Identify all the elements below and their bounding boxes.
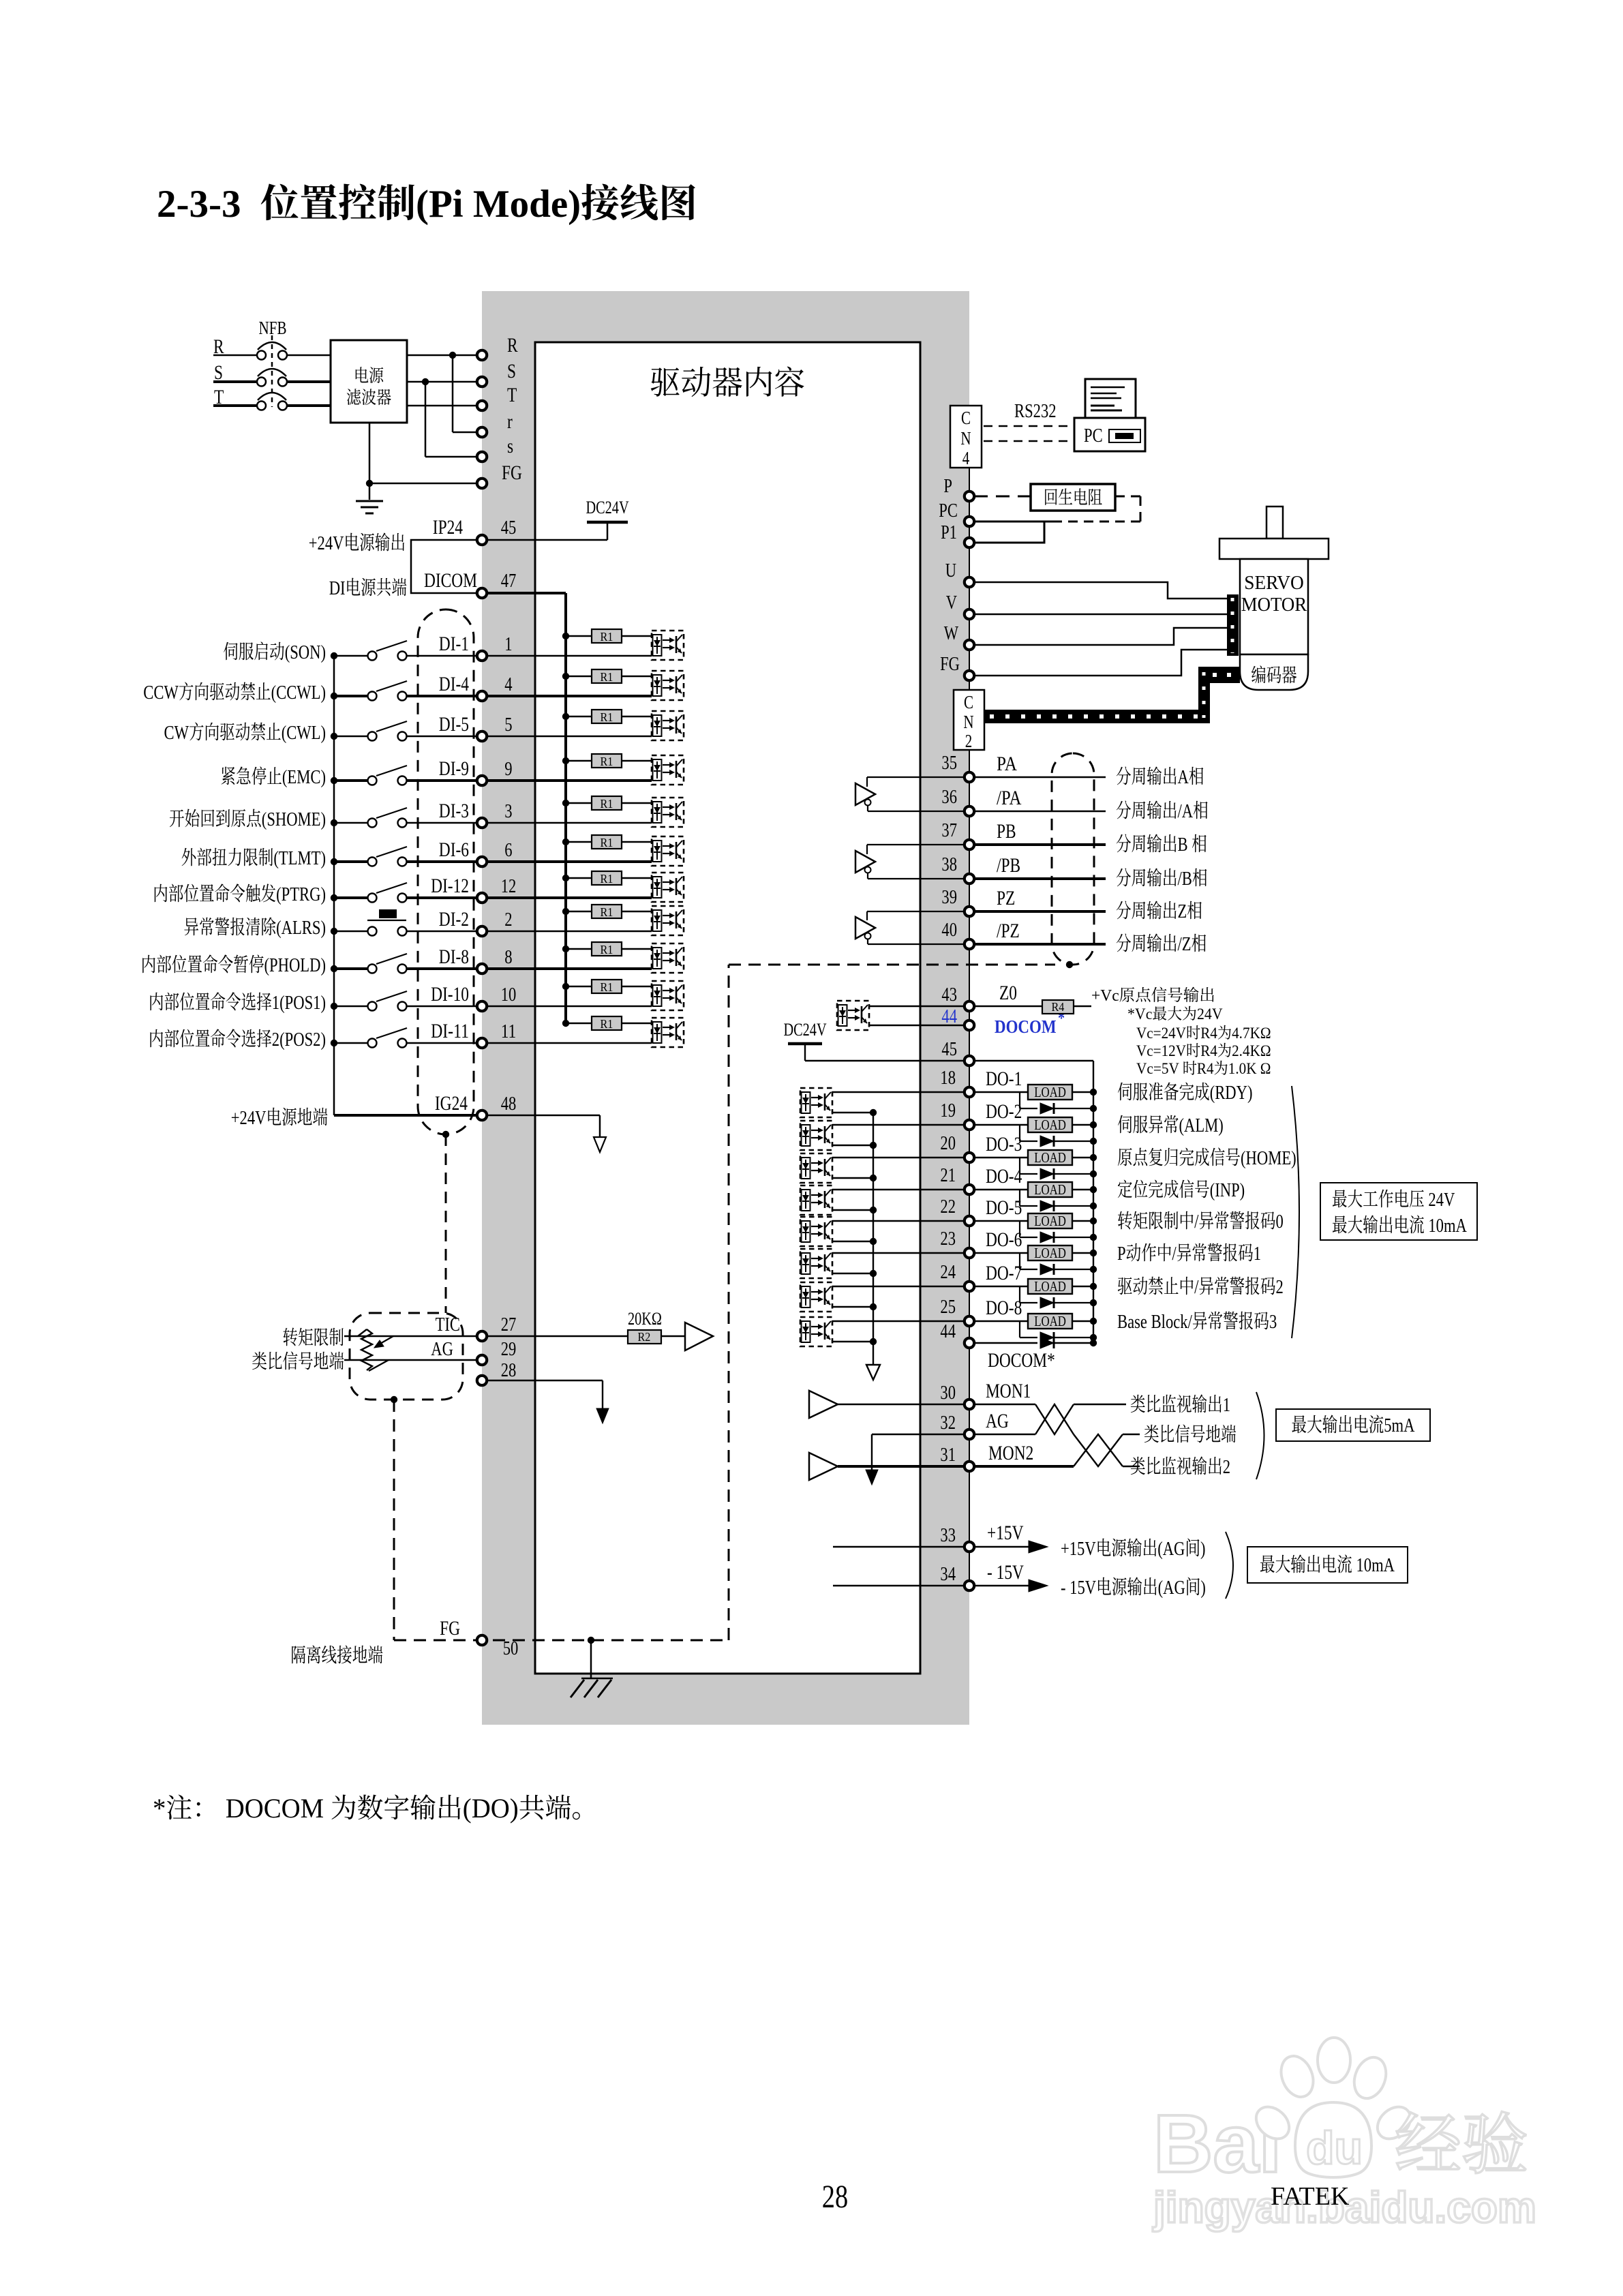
svg-text:DO-3: DO-3 — [986, 1133, 1022, 1155]
load resistor (DO-2) — [974, 1124, 1028, 1126]
watermark Baidu logo — [1153, 2038, 1416, 2190]
svg-text:22: 22 — [940, 1196, 956, 1218]
svg-text:PB: PB — [997, 820, 1016, 843]
svg-text:N: N — [963, 712, 973, 732]
wire jumper P1 to PC — [974, 522, 1044, 543]
svg-text:0: 0 — [1276, 1211, 1284, 1233]
svg-text:DI-4: DI-4 — [439, 673, 469, 695]
svg-text:FATEK: FATEK — [1271, 2182, 1350, 2211]
flyback diode (DO-1) — [1019, 1092, 1020, 1108]
wire W to motor — [974, 628, 1228, 645]
wire T to NFB — [213, 404, 257, 407]
wire pin 11 to optocoupler — [487, 1042, 652, 1044]
load resistor (DO-6) — [974, 1252, 1028, 1254]
svg-text:45: 45 — [501, 517, 517, 539]
switch for DI-10 — [334, 1006, 367, 1008]
svg-text:Z: Z — [1178, 901, 1187, 922]
svg-text:33: 33 — [940, 1524, 956, 1546]
DI common bus (left) — [333, 656, 335, 1115]
label 隔离线接地端 — [292, 1646, 305, 1663]
pin r — [477, 427, 487, 437]
inverter bubble A- — [865, 800, 871, 806]
svg-text:DO-2: DO-2 — [986, 1100, 1022, 1123]
callout box max voltage/current — [1320, 1183, 1477, 1240]
svg-text:(ALM): (ALM) — [1179, 1115, 1224, 1136]
svg-text:10mA: 10mA — [1352, 1554, 1395, 1576]
switch for DI-2 — [334, 931, 367, 933]
svg-text:S: S — [507, 360, 516, 382]
svg-text:10: 10 — [501, 984, 517, 1006]
svg-text:DO-1: DO-1 — [986, 1068, 1022, 1090]
wire pin 10 to optocoupler — [487, 1006, 652, 1008]
pin 9 (DI-9) — [477, 776, 487, 785]
svg-text:C: C — [961, 408, 971, 428]
svg-text:s: s — [507, 435, 513, 457]
svg-text:27: 27 — [501, 1314, 517, 1335]
svg-text:R1: R1 — [601, 797, 613, 811]
svg-text:(CCWL): (CCWL) — [271, 682, 326, 704]
DO emitter common bus — [873, 1113, 874, 1365]
optocoupler (DO-7) — [800, 1282, 832, 1312]
optocoupler (DI-5) — [652, 711, 684, 740]
svg-text:/: / — [1172, 1243, 1177, 1265]
junction R1 branch DI-11 — [562, 1020, 569, 1027]
svg-text:LOAD: LOAD — [1034, 1278, 1066, 1295]
pin 12 (DI-12) — [477, 893, 487, 903]
junction R1 branch DI-5 — [562, 713, 569, 720]
svg-text:44: 44 — [941, 1006, 957, 1027]
svg-text:(RDY): (RDY) — [1210, 1082, 1253, 1104]
wire PZ output — [974, 910, 1106, 913]
wire V to motor — [974, 614, 1228, 616]
pin 22 (DO-5) — [965, 1216, 974, 1226]
load common bus (vertical) — [1093, 1061, 1094, 1343]
svg-text:10mA: 10mA — [1425, 1215, 1467, 1237]
resistor R1 (DI-8) — [566, 948, 592, 950]
svg-text:2: 2 — [1276, 1276, 1284, 1298]
dashed wire regen resistor loop to PC — [1115, 496, 1140, 498]
svg-text:DI-12: DI-12 — [431, 875, 469, 897]
wire pin 8 to optocoupler — [487, 967, 652, 970]
wire driver B- to pin — [868, 878, 965, 879]
svg-text:1: 1 — [504, 633, 512, 655]
svg-text:DI-3: DI-3 — [439, 800, 469, 822]
connector CN2 — [954, 690, 984, 750]
svg-text:du: du — [1306, 2122, 1363, 2174]
wire -15V output arrow — [974, 1585, 1029, 1586]
svg-text:+15V: +15V — [1061, 1538, 1096, 1560]
wire pin 4 to optocoupler — [487, 695, 652, 697]
switch for DI-12 — [334, 896, 367, 899]
buffer amp MON2 — [809, 1453, 838, 1480]
pin 20 (DO-3) — [965, 1153, 974, 1162]
svg-text:MOTOR: MOTOR — [1241, 594, 1307, 616]
svg-text:IP24: IP24 — [433, 516, 463, 539]
svg-text:SERVO: SERVO — [1244, 572, 1304, 594]
wire FG to motor — [974, 650, 1228, 676]
svg-text:): ) — [1200, 1577, 1206, 1599]
svg-text:Vc=24V: Vc=24V — [1136, 1025, 1186, 1042]
svg-text:DOCOM: DOCOM — [219, 1793, 331, 1824]
svg-text:/Z: /Z — [1178, 933, 1192, 955]
optocoupler (DO-1) — [800, 1088, 832, 1117]
wire pin 2 to optocoupler — [487, 931, 652, 933]
svg-text:30: 30 — [940, 1382, 956, 1404]
svg-text:R1: R1 — [601, 1017, 613, 1031]
pin 18 (DO-1) — [965, 1087, 974, 1097]
svg-text:DI-2: DI-2 — [439, 908, 469, 931]
PC monitor icon — [1085, 379, 1136, 418]
svg-text:25: 25 — [940, 1296, 956, 1318]
svg-text:+24V: +24V — [309, 532, 344, 554]
wire pin45 to load bus — [974, 1060, 1093, 1061]
label 外部扭力限制(TLMT) — [182, 848, 196, 866]
pin 43 (Z0) — [965, 1001, 974, 1011]
wire opto emitter to DO common — [832, 1341, 873, 1342]
svg-text:- 15V: - 15V — [1061, 1577, 1096, 1599]
wire filter to pin R — [407, 354, 477, 357]
servo motor encoder section 编码器 — [1240, 654, 1308, 690]
junction DI-3 on common bus — [331, 819, 337, 826]
svg-text:DO-4: DO-4 — [986, 1165, 1022, 1188]
PC system unit icon — [1074, 418, 1145, 451]
switch for DI-1 — [334, 655, 367, 657]
junction DI-1 on common bus — [331, 652, 337, 659]
svg-text:1.0K Ω: 1.0K Ω — [1228, 1060, 1271, 1077]
pin 31 (MON2) — [965, 1462, 974, 1471]
label 定位完成信号(INP) — [1118, 1180, 1132, 1198]
optocoupler (Z0) — [837, 1001, 869, 1030]
svg-text:R1: R1 — [601, 670, 613, 684]
pin 1 (DI-1) — [477, 651, 487, 661]
wire TIC row — [344, 1335, 477, 1337]
label 驱动禁止中/异常警报码2 — [1118, 1278, 1132, 1295]
svg-text:50: 50 — [503, 1637, 519, 1659]
load resistor (DO-8) — [974, 1320, 1028, 1322]
svg-text:/PZ: /PZ — [997, 920, 1020, 942]
pin 2 (DI-2) — [477, 926, 487, 936]
pin 39 (PZ) — [965, 907, 974, 916]
pin 8 (DI-8) — [477, 964, 487, 973]
svg-text:36: 36 — [941, 786, 957, 808]
flyback diode (DO-6) — [1019, 1253, 1020, 1269]
optocoupler (DI-8) — [652, 943, 684, 973]
flyback diode (DO-2) — [1019, 1125, 1020, 1141]
svg-text:B: B — [1178, 834, 1192, 856]
svg-text:LOAD: LOAD — [1034, 1084, 1066, 1100]
wire pin 5 to optocoupler — [487, 736, 652, 738]
svg-text:3: 3 — [1269, 1311, 1277, 1333]
svg-text:(PHOLD): (PHOLD) — [264, 954, 327, 976]
label 分周输出/A相 — [1117, 801, 1131, 819]
pin 45 (IP24) — [477, 535, 487, 545]
wire S to NFB — [213, 380, 257, 383]
label 转矩限制中/异常警报码0 — [1118, 1211, 1132, 1230]
label 转矩限制 — [284, 1328, 298, 1346]
wire AG to internal ground — [872, 1434, 965, 1435]
pin 3 (DI-3) — [477, 818, 487, 828]
label 分周输出Z相 — [1117, 901, 1131, 920]
label 开始回到原点(SHOME) — [170, 809, 184, 827]
svg-text:/: / — [1194, 1276, 1199, 1298]
label 类比监视输出1 — [1131, 1395, 1145, 1413]
potentiometer wiper arrow — [379, 1336, 393, 1344]
svg-text:N: N — [960, 428, 971, 449]
svg-text:(PTRG): (PTRG) — [276, 883, 326, 905]
wire opto emitter to DO common — [832, 1112, 873, 1113]
wire driver B+ to pin — [867, 844, 965, 845]
pin 10 (DI-10) — [477, 1001, 487, 1011]
svg-text:R1: R1 — [601, 755, 613, 768]
svg-text:LOAD: LOAD — [1034, 1117, 1066, 1133]
svg-text:R4: R4 — [1200, 1025, 1217, 1042]
svg-text:39: 39 — [941, 886, 957, 908]
wire opto collector to pin 23 — [832, 1252, 965, 1254]
svg-text:DI-11: DI-11 — [431, 1020, 469, 1042]
svg-text:DI-1: DI-1 — [439, 633, 469, 655]
pin W — [965, 640, 974, 650]
pin 19 (DO-2) — [965, 1120, 974, 1130]
svg-text:(AG: (AG — [1157, 1538, 1185, 1560]
pin 33 (+15V) — [965, 1542, 974, 1552]
resistor R1 (DI-1) — [566, 635, 592, 637]
svg-text:1: 1 — [1254, 1243, 1261, 1265]
svg-text:LOAD: LOAD — [1034, 1181, 1066, 1198]
wire NFB to line filter (S) — [287, 380, 331, 383]
wire opto emitter to DO common — [832, 1273, 873, 1274]
wire PC solid segment — [974, 521, 1052, 523]
wire /PB output — [974, 877, 1106, 880]
svg-text:(Pi Mode): (Pi Mode) — [416, 183, 581, 226]
line driver B phase — [855, 851, 875, 873]
svg-text:11: 11 — [501, 1021, 517, 1042]
dashed wire P to regen resistor — [974, 496, 1031, 498]
junction on FG wire — [366, 480, 373, 487]
wire driver A+ to pin — [867, 776, 965, 778]
svg-text:R1: R1 — [601, 836, 613, 849]
wire /PA output — [974, 811, 1106, 813]
earth ground symbol (filter) — [356, 500, 383, 502]
junction DO common (DO-8) — [870, 1338, 877, 1345]
svg-text:4: 4 — [962, 448, 970, 468]
resistor R1 (DI-5) — [566, 716, 592, 718]
wire opto emitter to DO common — [832, 1241, 873, 1242]
line driver A phase — [855, 783, 875, 805]
svg-text:FG: FG — [940, 653, 960, 675]
svg-text:PC: PC — [1084, 425, 1103, 447]
junction DI-4 on common bus — [331, 693, 337, 699]
label 伺服异常(ALM) — [1118, 1115, 1132, 1134]
wire opto collector to pin 20 — [832, 1157, 965, 1158]
label 分周输出B 相 — [1117, 834, 1131, 853]
dashed shield loop vertical — [728, 965, 730, 1640]
svg-text:FG: FG — [440, 1617, 460, 1640]
svg-text:FG: FG — [502, 462, 522, 484]
resistor R1 (DI-3) — [566, 802, 592, 804]
callout box max 5mA — [1276, 1409, 1430, 1441]
pin P1 — [965, 538, 974, 547]
svg-text:R1: R1 — [601, 710, 613, 724]
breaker NFB 3-pole — [257, 351, 266, 360]
junction at oval bottom — [442, 1131, 449, 1138]
svg-text:*: * — [153, 1793, 166, 1824]
label 内部位置命令选择2(POS2) — [150, 1029, 163, 1047]
arrow analog ground (pin28) — [596, 1408, 609, 1423]
wire opto collector to pin 19 — [832, 1124, 965, 1126]
pin 21 (DO-4) — [965, 1185, 974, 1194]
resistor R1 (DI-11) — [566, 1023, 592, 1025]
svg-text:AG: AG — [431, 1338, 453, 1360]
svg-text:DICOM: DICOM — [424, 569, 477, 592]
line driver Z phase — [855, 917, 875, 939]
ground arrow (DO common) — [866, 1365, 880, 1380]
wire to label 类比监视输出2 — [1123, 1466, 1140, 1467]
optocoupler (DI-10) — [652, 981, 684, 1010]
inverter bubble Z- — [865, 933, 871, 939]
svg-text:Z0: Z0 — [999, 982, 1017, 1004]
pin 11 (DI-11) — [477, 1038, 487, 1048]
servo motor body — [1240, 559, 1308, 654]
svg-text:R: R — [507, 334, 518, 357]
svg-text:TIC: TIC — [436, 1314, 460, 1335]
svg-text:DO-6: DO-6 — [986, 1228, 1022, 1251]
wire switch to pin 11 — [406, 1042, 477, 1044]
callout box max 10mA — [1247, 1547, 1408, 1583]
pin 6 (DI-6) — [477, 857, 487, 866]
potentiometer (torque limit) — [361, 1329, 372, 1370]
servo motor shaft — [1266, 507, 1283, 539]
wire +15V internal — [833, 1546, 965, 1547]
svg-text:3: 3 — [504, 800, 512, 822]
svg-text:(TLMT): (TLMT) — [273, 847, 326, 869]
svg-text:2(POS2): 2(POS2) — [272, 1029, 326, 1051]
shield oval (encoder outputs) — [1052, 753, 1094, 965]
svg-text:1: 1 — [1223, 1394, 1230, 1416]
resistor R1 (DI-2) — [566, 911, 592, 913]
label 内部位置命令触发(PTRG) — [155, 884, 168, 902]
pin 24 (DO-7) — [965, 1282, 974, 1291]
wire -15V internal — [833, 1585, 965, 1586]
wire AG to pot bottom — [369, 1360, 389, 1371]
resistor R1 (DI-4) — [566, 676, 592, 678]
wire switch to pin 1 — [406, 655, 477, 657]
optocoupler (DI-12) — [652, 873, 684, 902]
svg-text:DI-5: DI-5 — [439, 713, 469, 736]
svg-text:DI: DI — [329, 577, 346, 599]
svg-text:35: 35 — [941, 752, 957, 774]
pin 40 (/PZ) — [965, 939, 974, 949]
junction on R wire — [449, 352, 456, 359]
load resistor (DO-4) — [974, 1189, 1028, 1190]
switch for DI-9 — [334, 779, 367, 782]
wire pin 12 to optocoupler — [487, 896, 652, 899]
wire to chassis ground — [590, 1640, 592, 1678]
svg-text:+15V: +15V — [987, 1522, 1024, 1544]
pin 44 (DOCOM second) — [965, 1338, 974, 1348]
wire switch to pin 6 — [406, 860, 477, 863]
label 类比信号地端 — [252, 1352, 267, 1370]
svg-text:5mA: 5mA — [1384, 1415, 1414, 1436]
svg-text:NFB: NFB — [259, 318, 287, 338]
svg-text:2-3-3: 2-3-3 — [157, 183, 260, 226]
connector shield oval (DI group) — [418, 609, 474, 1134]
pin s — [477, 452, 487, 462]
pin 25 (DO-8) — [965, 1316, 974, 1326]
svg-text:24: 24 — [940, 1261, 956, 1283]
resistor R1 (DI-6) — [566, 841, 592, 843]
regen resistor box 回生电阻 — [1031, 484, 1115, 511]
junction DO common (DO-6) — [870, 1270, 877, 1277]
wire /PZ output — [974, 943, 1106, 946]
svg-text:47: 47 — [501, 570, 517, 592]
svg-text:CCW: CCW — [143, 682, 179, 704]
svg-text:): ) — [1200, 1538, 1206, 1560]
wire pin 48 to internal ground — [487, 1115, 600, 1117]
servo motor flange — [1219, 539, 1329, 559]
svg-text:1(POS1): 1(POS1) — [272, 992, 326, 1014]
callout bracket DO outputs — [1292, 1086, 1299, 1338]
arrow internal analog ground — [866, 1470, 878, 1485]
svg-text:DI-8: DI-8 — [439, 946, 469, 968]
flyback diode (DO-8) — [1019, 1321, 1020, 1338]
pin 48 (IG24) — [477, 1111, 487, 1120]
switch for DI-5 — [334, 736, 367, 738]
junction R1 branch DI-10 — [562, 983, 569, 990]
junction DO common (DO-3) — [870, 1175, 877, 1181]
servo driver body (gray) — [482, 291, 969, 1725]
pin 28 — [477, 1376, 487, 1385]
svg-text:43: 43 — [941, 984, 957, 1006]
analog shield box (dashed) — [350, 1313, 463, 1400]
optocoupler (DO-3) — [800, 1153, 832, 1183]
wire pin 3 to optocoupler — [487, 822, 652, 824]
svg-text:+Vc: +Vc — [1091, 987, 1119, 1005]
svg-text:4: 4 — [504, 674, 513, 695]
driver inner box 驱动器内容 — [535, 342, 920, 1674]
switch for DI-4 — [334, 695, 367, 697]
resistor R4 — [1042, 1000, 1074, 1014]
wire filter ground to pin FG — [369, 423, 371, 500]
label 分周输出/Z相 — [1117, 934, 1131, 952]
svg-text:(DO): (DO) — [463, 1793, 519, 1824]
label 类比监视输出2 — [1131, 1457, 1145, 1475]
junction R1 branch DI-12 — [562, 875, 569, 881]
wire DC24V to pin 45 — [805, 1060, 965, 1061]
wire opto collector to pin 24 — [832, 1286, 965, 1287]
svg-text:LOAD: LOAD — [1034, 1149, 1066, 1166]
label 类比信号地端 — [1144, 1425, 1159, 1443]
RS232 dashed cable — [984, 425, 1074, 427]
wire opto emitter to DO common — [832, 1177, 873, 1179]
optocoupler (DI-11) — [652, 1018, 684, 1047]
diode (DOCOM) — [1040, 1338, 1054, 1348]
wire driver Z+ to pin — [867, 911, 965, 912]
junction R1 branch DI-1 — [562, 633, 569, 639]
svg-text:PZ: PZ — [997, 887, 1015, 909]
resistor R1 (DI-10) — [566, 986, 592, 988]
svg-text:LOAD: LOAD — [1034, 1313, 1066, 1329]
pin 47 (DICOM) — [477, 588, 487, 598]
label 伺服启动(SON) — [224, 642, 238, 661]
svg-text:R1: R1 — [601, 905, 613, 919]
svg-text:18: 18 — [940, 1067, 956, 1089]
dashed shield line through pin 50 — [394, 1640, 729, 1642]
svg-text:21: 21 — [940, 1164, 956, 1186]
svg-text:MON2: MON2 — [988, 1442, 1033, 1464]
wire switch to pin 9 — [406, 779, 477, 782]
pin PC — [965, 517, 974, 526]
wire NFB to line filter (R) — [287, 354, 331, 357]
